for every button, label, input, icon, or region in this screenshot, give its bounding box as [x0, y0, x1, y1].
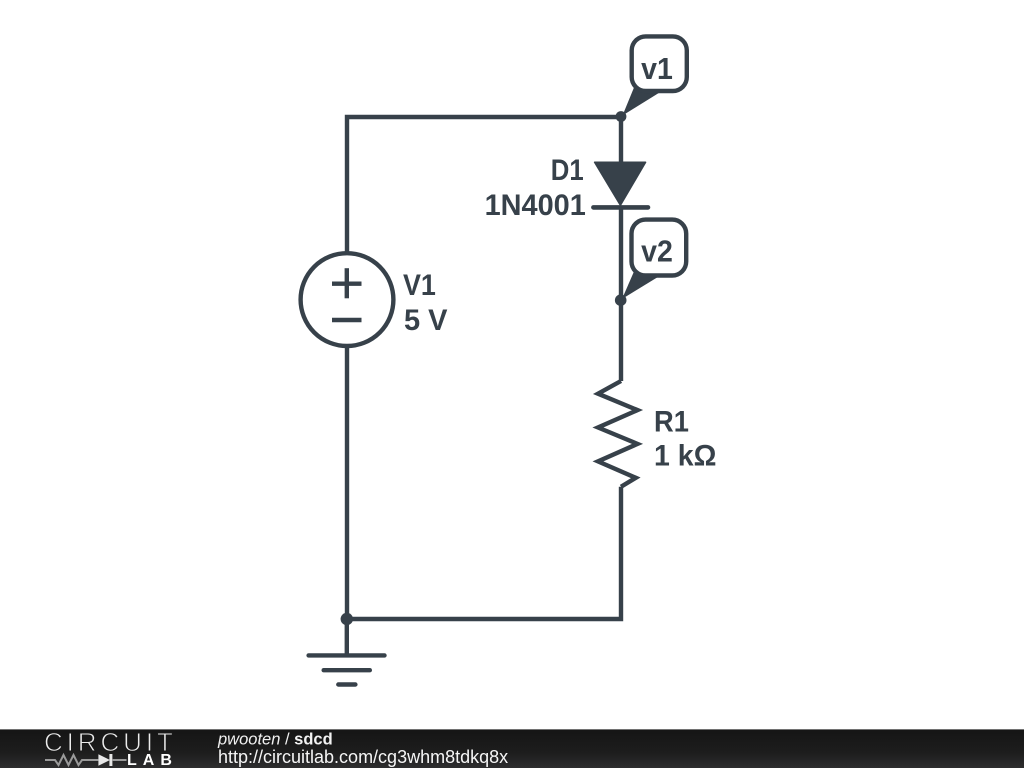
bottom brand bar — [0, 729, 1024, 768]
ground symbol line 2 — [324, 668, 370, 672]
wire: left lower vertical + bottom horizontal + right vertical up to resistor — [347, 346, 621, 619]
diode D1 triangle — [595, 162, 646, 205]
svg-text:5 V: 5 V — [404, 304, 448, 337]
svg-text:V1: V1 — [403, 269, 436, 302]
logo diode triangle — [98, 754, 110, 766]
node v1 bubble tail — [623, 88, 663, 116]
logo diode cathode bar — [109, 754, 112, 766]
svg-text:v1: v1 — [641, 51, 673, 86]
node dot v2 — [615, 294, 627, 306]
svg-text:D1: D1 — [551, 154, 584, 187]
svg-text:pwooten / sdcd: pwooten / sdcd — [217, 731, 333, 749]
logo wire to LAB — [112, 759, 127, 761]
wire: top-left L from V1 top to node v1 — [347, 117, 621, 253]
node v1 bubble — [632, 36, 687, 91]
wire: node v2 down to resistor top — [619, 300, 623, 381]
ground symbol line 3 — [338, 682, 355, 686]
voltage source V1 circle — [301, 253, 394, 346]
svg-text:R1: R1 — [654, 405, 689, 438]
node dot v1 — [616, 111, 627, 122]
svg-text:1N4001: 1N4001 — [485, 189, 586, 222]
V1 minus sign — [332, 318, 362, 322]
V1 plus sign — [332, 268, 362, 298]
diode D1 cathode bar — [593, 205, 648, 210]
node v2 bubble — [632, 220, 687, 276]
logo resistor squiggle — [45, 755, 98, 765]
svg-text:v2: v2 — [641, 234, 673, 269]
svg-text:http://circuitlab.com/cg3whm8t: http://circuitlab.com/cg3whm8tdkq8x — [218, 747, 508, 767]
node dot ground junction — [341, 613, 353, 625]
wire: v1 node down to diode anode — [619, 117, 623, 164]
resistor R1 zigzag — [598, 381, 638, 487]
svg-text:LAB: LAB — [127, 752, 178, 768]
ground symbol line 1 — [309, 653, 385, 657]
wire: diode cathode down to node v2 — [619, 207, 623, 300]
node v2 bubble tail — [622, 272, 662, 300]
wire: ground stem — [345, 619, 349, 655]
svg-text:1 kΩ: 1 kΩ — [654, 440, 716, 473]
